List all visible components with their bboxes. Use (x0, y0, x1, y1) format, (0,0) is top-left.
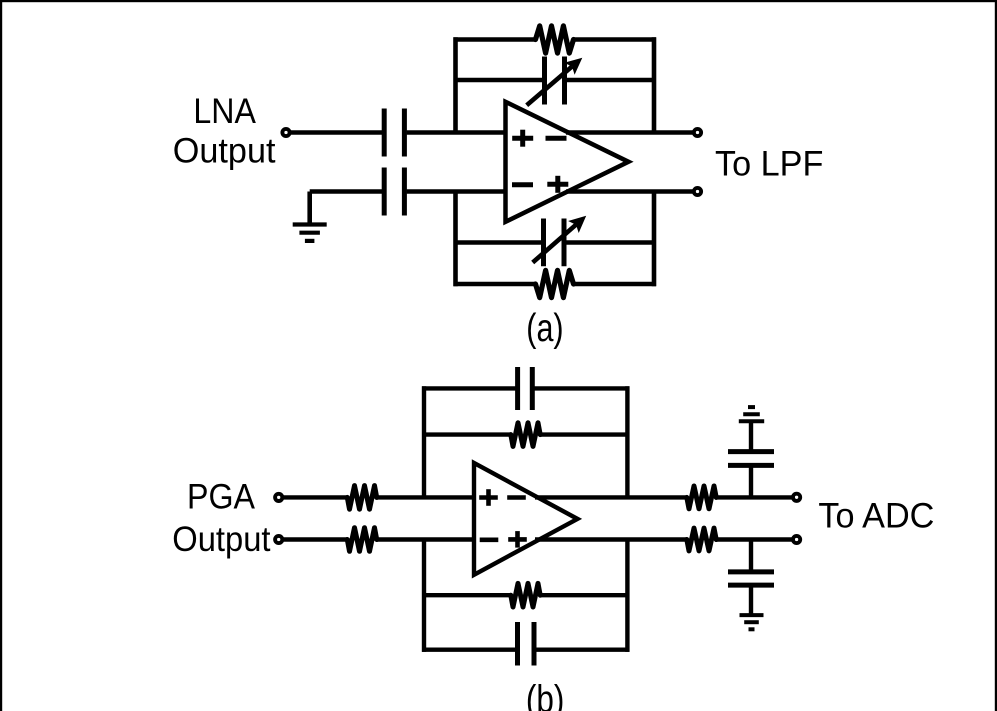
svg-text:(a): (a) (526, 307, 563, 350)
op-amp U1 + output mark (547, 176, 568, 193)
resistor R8 (bottom output) (687, 528, 716, 551)
ground (bottom shunt) (740, 615, 764, 629)
wire: resistor R1 row right (574, 37, 656, 42)
wire: R3 to op-amp U2 (376, 495, 474, 499)
wire: capacitor C5 row left (422, 386, 518, 390)
svg-text:PGA: PGA (187, 477, 255, 517)
label: PGA Output (172, 477, 270, 560)
op-amp U1 - output mark (546, 136, 567, 141)
terminal: output (b) top (793, 494, 800, 501)
wire: varactor C4 row right (564, 240, 656, 245)
op-amp U1 - input mark (512, 182, 533, 187)
capacitor C7 (top shunt) (728, 452, 774, 466)
wire: varactor C3 row left (454, 78, 545, 83)
wire: U2 bottom output to R8 (535, 537, 688, 541)
capacitor C2 (bottom coupling) (384, 168, 404, 216)
op-amp U2 + input mark (479, 489, 498, 506)
wire: C1 to op-amp U1 noninverting input (407, 130, 506, 135)
wire: (b) bottom feedback right vertical (625, 540, 629, 652)
wire: bottom input terminal to R4 (282, 537, 348, 541)
wire: R8 to bottom output terminal (716, 537, 793, 541)
wire: bottom shunt stem lower (749, 585, 753, 615)
wire: R7 to top output terminal (716, 495, 793, 499)
wire: top shunt stem upper (749, 421, 753, 451)
svg-text:To LPF: To LPF (715, 144, 823, 184)
wire: (b) top feedback right vertical (625, 386, 629, 497)
label: To ADC (818, 495, 934, 535)
wire: input terminal to C1 (290, 130, 382, 135)
wire: bottom feedback right vertical (652, 192, 657, 287)
op-amp U2 (fully differential) (474, 463, 578, 575)
wire: ground to C2 (310, 189, 382, 194)
svg-text:To ADC: To ADC (818, 495, 934, 535)
wire: resistor R1 row left (454, 37, 536, 42)
capacitor C3 (variable, top feedback) (527, 57, 583, 106)
wire: capacitor C5 row right (532, 386, 629, 390)
capacitor C6 (bottom feedback) (518, 622, 535, 666)
wire: C2 to op-amp U1 inverting input (407, 189, 506, 194)
wire: resistor R5 row right (540, 432, 630, 436)
svg-text:(b): (b) (526, 678, 565, 711)
resistor R1 (top feedback) (536, 26, 574, 53)
wire: U1 bottom output to terminal (566, 189, 694, 194)
op-amp U1 + input mark (512, 130, 533, 147)
wire: bottom shunt stem upper (749, 540, 753, 572)
wire: (b) bottom feedback left vertical (422, 540, 426, 652)
terminal: PGA input bottom (b) (275, 536, 282, 543)
label: To LPF (715, 144, 823, 184)
terminal: LNA input (a) (282, 129, 289, 136)
wire: varactor C4 row left (454, 240, 544, 245)
label: (b) (526, 678, 565, 711)
capacitor C8 (bottom shunt) (728, 572, 774, 585)
wire: bottom feedback left vertical (453, 192, 458, 287)
wire: resistor R6 row left (422, 593, 512, 597)
svg-text:LNA: LNA (193, 91, 256, 131)
wire: capacitor C6 row left (422, 648, 518, 652)
resistor R3 (top input) (347, 486, 376, 510)
wire: top feedback left vertical (453, 37, 458, 132)
capacitor C5 (top feedback) (518, 367, 533, 410)
resistor R4 (bottom input) (347, 528, 376, 552)
resistor R7 (top output) (687, 486, 716, 509)
op-amp U2 + output mark (508, 531, 527, 548)
svg-text:Output: Output (173, 130, 276, 170)
wire: U2 top output to R7 (535, 495, 688, 499)
wire: U1 top output to terminal (566, 130, 694, 135)
terminal: PGA input top (b) (275, 494, 282, 501)
op-amp U2 - input mark (480, 537, 499, 542)
wire: varactor C3 row right (565, 78, 657, 83)
op-amp U2 - output mark (507, 495, 526, 500)
ground (inverted, top shunt) (739, 407, 764, 421)
label: (a) (526, 307, 563, 350)
wire: R4 to op-amp U2 (376, 537, 474, 541)
resistor R2 (bottom feedback) (536, 270, 574, 297)
wire: (b) top feedback left vertical (422, 386, 426, 497)
wire: capacitor C6 row right (534, 648, 629, 652)
wire: top shunt stem lower (749, 465, 753, 497)
capacitor C4 (variable, bottom feedback) (533, 216, 587, 266)
capacitor C1 (top coupling) (384, 109, 404, 157)
resistor R5 (top feedback) (511, 423, 540, 447)
resistor R6 (bottom feedback) (511, 583, 540, 607)
wire: resistor R2 row left (454, 282, 536, 287)
terminal: output (a) bottom (694, 188, 701, 195)
wire: resistor R6 row right (540, 593, 630, 597)
svg-text:Output: Output (172, 519, 270, 559)
ground (a) (293, 192, 327, 241)
wire: resistor R2 row right (574, 282, 656, 287)
terminal: output (b) bottom (793, 536, 800, 543)
label: LNA Output (173, 91, 276, 171)
wire: top input terminal to R3 (282, 495, 348, 499)
op-amp U1 (fully differential) (506, 102, 629, 222)
wire: resistor R5 row left (422, 432, 512, 436)
terminal: output (a) top (694, 129, 701, 136)
wire: top feedback right vertical (652, 37, 657, 132)
